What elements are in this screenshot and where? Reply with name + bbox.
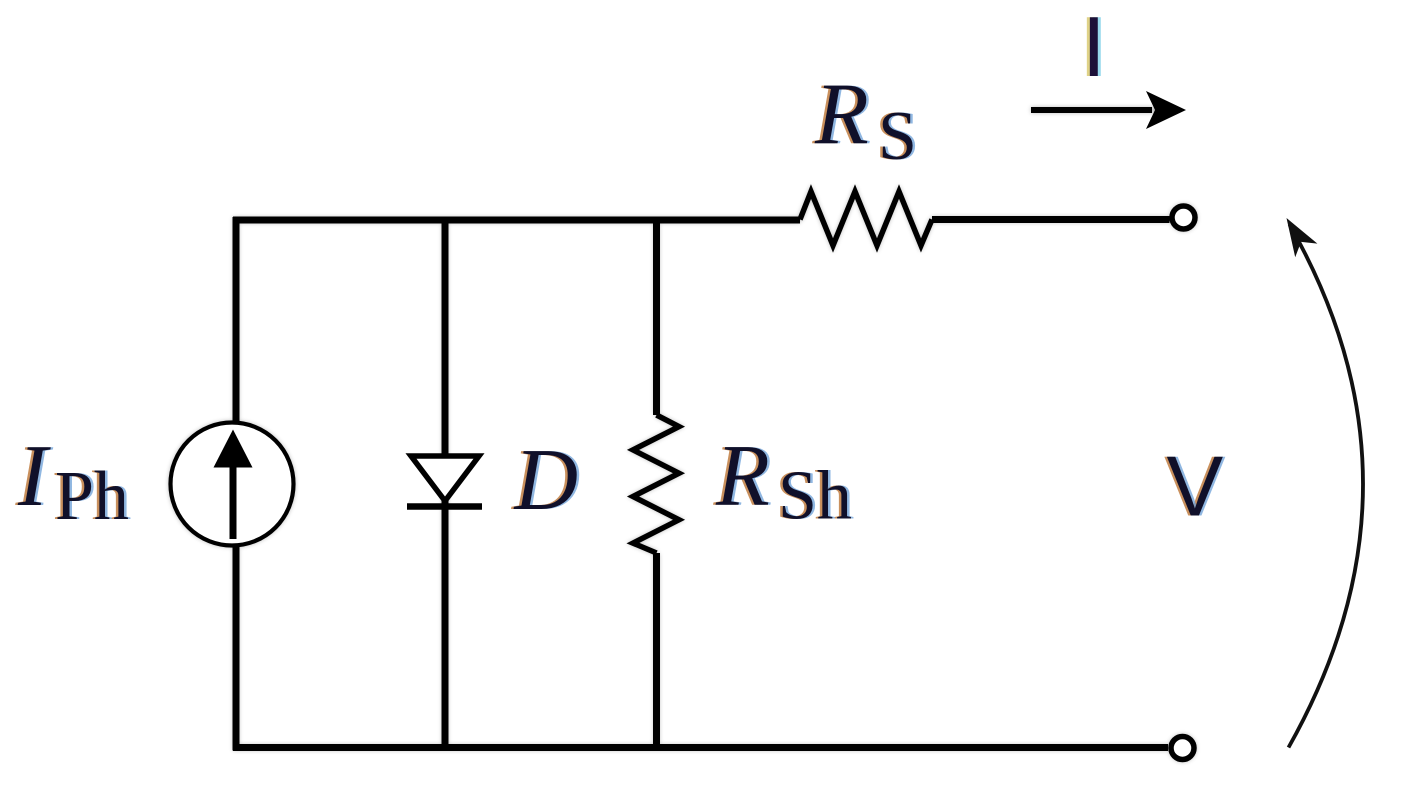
current I arrow (top right) xyxy=(1031,91,1186,129)
curved arrow for V polarity xyxy=(1287,218,1364,748)
svg-text:S: S xyxy=(878,98,917,175)
current source arrow xyxy=(214,430,253,540)
label IPh xyxy=(15,428,132,535)
wire: diode branch vertical xyxy=(442,217,449,751)
wire: left vertical upper (top rail to current source) xyxy=(233,217,240,423)
label V (output voltage) xyxy=(1164,440,1226,535)
svg-text:I: I xyxy=(1082,0,1106,95)
wire: top rail right segment (RS to + terminal) xyxy=(932,216,1170,223)
resistor RS zigzag (horizontal) xyxy=(800,192,932,246)
label D xyxy=(511,432,581,529)
svg-text:I: I xyxy=(17,428,51,525)
label RSh xyxy=(713,428,855,535)
svg-text:R: R xyxy=(814,67,869,164)
svg-text:Sh: Sh xyxy=(778,458,852,535)
soft halo underlay of all wires xyxy=(171,110,1196,760)
wire: bottom rail xyxy=(233,744,1168,751)
wire: RSh branch vertical upper xyxy=(653,217,660,415)
terminal + (top right) xyxy=(1172,206,1195,229)
current source IPh circle xyxy=(171,423,294,546)
label RS xyxy=(812,67,920,176)
svg-text:D: D xyxy=(514,432,579,529)
svg-text:Ph: Ph xyxy=(55,458,129,535)
wire: RSh branch vertical lower xyxy=(653,553,660,751)
label I (output current) xyxy=(1079,0,1109,95)
wire: left vertical lower (current source to bottom rail) xyxy=(233,546,240,751)
resistor RSh zigzag (vertical) xyxy=(633,415,679,553)
svg-text:R: R xyxy=(715,428,770,525)
svg-text:V: V xyxy=(1167,440,1224,535)
terminal - (bottom right) xyxy=(1171,737,1194,760)
wire: top rail left segment (node A to RS) xyxy=(233,217,800,224)
diode D symbol (triangle + cathode bar) xyxy=(407,456,482,507)
